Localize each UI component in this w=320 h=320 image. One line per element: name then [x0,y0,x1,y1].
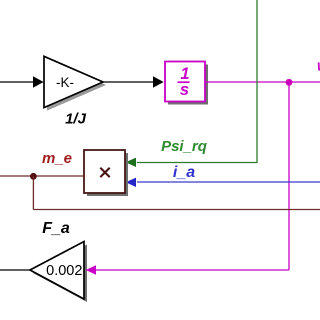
node junction w [286,79,293,86]
node junction m_e [30,173,37,180]
wire m_e vertical [32,176,34,210]
gain block F_a (0.002) [30,242,84,300]
svg-text:s: s [180,81,189,99]
product block U2 [84,150,125,193]
wire w vertical [288,82,290,270]
arrowhead into gain F_a [86,265,96,274]
svg-text:-K-: -K- [56,75,74,90]
wire integrator output w [205,81,320,83]
svg-text:Psi_rq: Psi_rq [161,138,207,155]
wire Psi_rq horizontal [137,162,258,164]
wire w feedback horizontal [96,269,289,271]
wire input to gain 1/J [0,81,34,83]
wire m_e output of product [0,175,84,177]
product x symbol [100,168,109,177]
wire gain to integrator [103,81,154,83]
svg-text:1/J: 1/J [65,111,87,128]
wire Psi_rq vertical [256,0,258,163]
svg-text:1: 1 [180,65,189,83]
svg-text:F_a: F_a [42,220,70,237]
arrowhead into gain 1/J [33,76,44,87]
svg-text:m_e: m_e [42,150,72,167]
svg-text:0.002: 0.002 [46,263,82,279]
arrowhead Psi_rq into product [126,158,136,167]
integrator fraction bar [178,81,190,83]
gain block 1/J (-K-) [44,56,103,107]
arrowhead i_a into product [126,178,136,187]
gain 1/J shadow [47,59,106,110]
gain F_a shadow [33,245,87,303]
wire F_a output [0,269,30,271]
integrator block 1/s [165,62,205,102]
wire m_e horizontal to right [33,209,320,211]
wire i_a [137,181,320,183]
svg-text:i_a: i_a [173,164,195,181]
arrowhead into integrator [153,76,164,87]
product block shadow [87,153,128,196]
integrator U1 shadow [168,65,208,105]
